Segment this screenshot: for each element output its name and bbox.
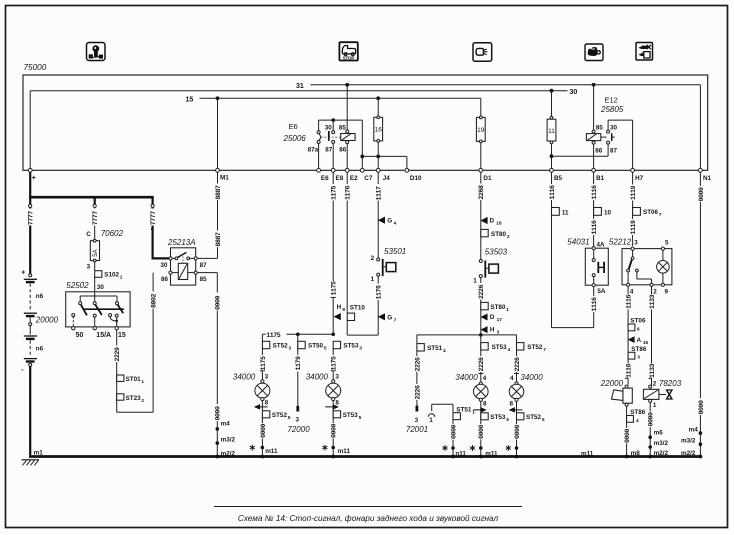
svg-text:8802: 8802: [151, 293, 158, 308]
lamp 34000 (rear right reversing): [306, 371, 341, 456]
svg-text:0000: 0000: [624, 428, 631, 443]
wire 7777 (battery): [27, 209, 35, 226]
svg-text:8: 8: [342, 307, 345, 313]
arrow D18: [480, 217, 501, 227]
svg-text:6: 6: [637, 326, 640, 332]
connector ST01: [117, 375, 145, 385]
svg-text:7777: 7777: [92, 211, 99, 226]
arrow A16: [628, 336, 649, 346]
svg-text:11: 11: [562, 209, 569, 216]
connector ST23: [117, 394, 145, 404]
connector ST53_4: [478, 335, 511, 382]
svg-text:1: 1: [653, 402, 657, 409]
svg-text:m3/2: m3/2: [654, 440, 669, 447]
connector ST52_5 (brake right): [517, 413, 545, 423]
svg-text:7777: 7777: [28, 211, 35, 226]
svg-text:ST86: ST86: [630, 409, 646, 416]
svg-text:0000: 0000: [260, 423, 267, 438]
arrow H8: [334, 304, 346, 320]
svg-text:0000: 0000: [648, 412, 655, 427]
connector ST53_3: [330, 341, 362, 380]
svg-text:25213A: 25213A: [167, 238, 196, 247]
wire 0000 (N1 to ground): [681, 172, 705, 457]
svg-text:ST80: ST80: [491, 231, 507, 238]
svg-text:1119: 1119: [630, 220, 637, 235]
svg-text:B5: B5: [554, 175, 563, 182]
svg-text:ST52: ST52: [273, 343, 289, 350]
svg-text:5: 5: [542, 417, 545, 423]
svg-text:4: 4: [630, 288, 634, 295]
connector ST52_5: [262, 411, 290, 421]
svg-text:2229: 2229: [114, 347, 121, 362]
svg-text:ST53: ST53: [490, 414, 506, 421]
svg-text:5A: 5A: [597, 288, 606, 295]
svg-text:2268: 2268: [478, 185, 485, 200]
svg-text:19: 19: [477, 127, 485, 134]
svg-text:5: 5: [665, 240, 669, 247]
svg-text:n6: n6: [36, 293, 44, 300]
svg-text:ST10: ST10: [350, 304, 366, 311]
svg-text:3: 3: [634, 240, 638, 247]
svg-text:8: 8: [483, 400, 487, 407]
terminal B1: [592, 168, 605, 182]
svg-text:+: +: [32, 175, 36, 182]
wire 8802 (coil return): [117, 273, 158, 413]
svg-text:2226: 2226: [478, 284, 485, 299]
lamp 34000 (brake left): [455, 373, 488, 456]
svg-text:34000: 34000: [233, 373, 256, 382]
svg-text:15/A: 15/A: [96, 332, 111, 339]
bus 31: [296, 83, 700, 171]
svg-text:7: 7: [543, 347, 546, 353]
wire 7777 (fuse C): [91, 209, 99, 226]
svg-text:0000: 0000: [450, 424, 457, 439]
svg-text:5: 5: [324, 346, 327, 352]
wire 1119 (H7 to horn button): [629, 172, 637, 246]
svg-text:C: C: [86, 231, 91, 238]
terminal D1: [479, 168, 492, 182]
wire 0000 (brake right ground): [513, 424, 521, 450]
svg-text:C7: C7: [364, 175, 373, 182]
svg-text:2226: 2226: [414, 357, 421, 372]
svg-text:ST52: ST52: [526, 414, 542, 421]
svg-text:4: 4: [483, 375, 487, 382]
wire 1175 horizontal: [262, 331, 335, 339]
battery 20000: [21, 208, 58, 456]
svg-text:1: 1: [506, 307, 509, 313]
wire 0000 (relay 85 to ground): [197, 273, 235, 458]
svg-text:85: 85: [596, 124, 604, 131]
svg-text:5: 5: [359, 415, 362, 421]
svg-text:2226: 2226: [414, 385, 421, 400]
svg-text:2: 2: [653, 288, 657, 295]
svg-text:86: 86: [161, 276, 169, 283]
svg-text:30: 30: [325, 124, 333, 131]
connector ST10: [347, 304, 378, 335]
svg-text:86: 86: [339, 147, 347, 154]
reverse switch 53501: [371, 247, 407, 335]
svg-text:31: 31: [296, 83, 304, 90]
connector ST50_5: [295, 334, 327, 406]
svg-text:7: 7: [394, 317, 397, 323]
horn 54031: [567, 238, 608, 312]
svg-text:ST53: ST53: [492, 344, 508, 351]
svg-text:0000: 0000: [698, 400, 705, 415]
svg-text:m4: m4: [689, 426, 699, 433]
terminal E6: [317, 168, 329, 182]
svg-text:30: 30: [570, 89, 578, 96]
terminal +: [28, 168, 36, 182]
svg-text:1: 1: [371, 276, 375, 283]
svg-text:ST23: ST23: [126, 395, 142, 402]
svg-text:87: 87: [200, 262, 208, 269]
terminal D10: [405, 168, 422, 182]
bus 15: [186, 96, 481, 103]
svg-text:5: 5: [506, 417, 509, 423]
svg-text:52502: 52502: [66, 281, 89, 290]
svg-text:m1: m1: [34, 450, 44, 457]
socket pin 1 (72001 mate): [428, 404, 453, 424]
brake switch 53503: [473, 248, 507, 335]
svg-text:4: 4: [394, 220, 397, 226]
svg-text:34000: 34000: [306, 373, 329, 382]
svg-text:a: a: [151, 227, 154, 232]
svg-text:M1: M1: [220, 175, 229, 182]
wire 0000 (horn ground): [623, 428, 640, 458]
icon stop-lamp: [339, 42, 357, 60]
svg-text:70602: 70602: [101, 229, 124, 238]
svg-text:H7: H7: [635, 175, 644, 182]
svg-text:9: 9: [665, 288, 669, 295]
svg-text:0000: 0000: [215, 295, 222, 310]
terminal N1: [699, 168, 712, 182]
svg-text:85: 85: [200, 276, 208, 283]
lamp 34000 (brake right): [509, 373, 543, 456]
wire 1116 (B1 to horn relay): [590, 172, 598, 248]
svg-text:85: 85: [339, 124, 347, 131]
svg-text:2: 2: [371, 255, 375, 262]
junction box outer frame: [23, 75, 708, 170]
relay E6 25006: [283, 85, 363, 171]
fuse C 70602 (5A): [86, 208, 123, 271]
fuse 11: [547, 116, 556, 144]
svg-text:30: 30: [610, 124, 618, 131]
svg-text:50: 50: [76, 332, 84, 339]
svg-text:10: 10: [604, 209, 612, 216]
icon fanfare-horns: [636, 43, 653, 61]
wire 7777a (relay feed): [149, 209, 157, 233]
svg-text:34000: 34000: [520, 373, 543, 382]
svg-text:m6: m6: [654, 429, 664, 436]
svg-text:4A: 4A: [597, 241, 606, 248]
svg-text:G: G: [387, 217, 392, 224]
svg-text:1116: 1116: [591, 185, 598, 200]
svg-text:72001: 72001: [406, 425, 428, 434]
svg-text:16: 16: [375, 127, 383, 134]
svg-text:75000: 75000: [24, 63, 47, 72]
connector ST53_5 (brake left): [481, 413, 509, 423]
svg-text:E8: E8: [336, 175, 344, 182]
bus 30: [30, 89, 577, 171]
wire 0000 (ST51_1 ground): [450, 424, 467, 457]
svg-text:ST50: ST50: [308, 343, 324, 350]
svg-text:D: D: [490, 218, 495, 225]
svg-text:1116: 1116: [626, 294, 633, 309]
wire 2268 (D1 down): [478, 172, 486, 259]
svg-text:Схема № 14: Стоп-сигнал, фонар: Схема № 14: Стоп-сигнал, фонари заднего …: [238, 514, 499, 523]
connector ST80_1: [481, 302, 510, 313]
relay 25213A feed (thick): [152, 208, 171, 260]
connector ST52_7: [513, 343, 546, 382]
connector 11: [552, 208, 570, 217]
svg-text:7777: 7777: [150, 211, 157, 226]
svg-text:1117: 1117: [376, 186, 383, 201]
svg-text:0000: 0000: [215, 406, 222, 421]
svg-text:ST53: ST53: [343, 412, 359, 419]
svg-text:2: 2: [141, 398, 144, 404]
svg-text:H: H: [490, 327, 495, 334]
horn 22000: [600, 378, 633, 455]
clutch/brake device 78203: [643, 378, 681, 455]
svg-text:1119: 1119: [630, 185, 637, 200]
svg-text:11: 11: [548, 128, 555, 135]
svg-text:53503: 53503: [485, 248, 508, 257]
connector ST80_2: [481, 229, 510, 239]
svg-text:1133: 1133: [649, 363, 656, 378]
svg-text:+: +: [21, 270, 25, 277]
battery feed bus (thick): [29, 172, 155, 207]
svg-text:7: 7: [659, 212, 662, 218]
svg-text:A: A: [637, 337, 642, 344]
svg-text:3: 3: [637, 355, 640, 361]
wire 8887 (M1 to relay 87): [197, 172, 222, 258]
connector ST86_4: [627, 409, 646, 424]
svg-text:20000: 20000: [35, 315, 59, 324]
node C7/J4/D10 link: [360, 155, 407, 171]
svg-text:25805: 25805: [600, 105, 624, 114]
svg-text:1175: 1175: [331, 185, 338, 200]
svg-text:1176: 1176: [345, 185, 352, 200]
svg-text:8887: 8887: [215, 185, 222, 200]
brake lamp feed rail: [417, 333, 517, 344]
svg-text:1175: 1175: [331, 281, 338, 296]
svg-text:ST01: ST01: [126, 376, 142, 383]
svg-text:m11: m11: [581, 450, 594, 457]
svg-text:ST51: ST51: [427, 345, 443, 352]
svg-text:5A: 5A: [93, 249, 99, 256]
terminal E2: [345, 168, 358, 182]
svg-text:8: 8: [265, 400, 269, 407]
terminal M1: [216, 168, 230, 181]
icon ignition-key: [87, 43, 106, 61]
horn button 52212: [609, 238, 672, 296]
svg-text:ST52: ST52: [272, 412, 288, 419]
connector ST51_1: [453, 407, 475, 456]
svg-text:3: 3: [265, 373, 269, 380]
fuse 19: [476, 98, 485, 170]
terminal C7: [360, 168, 372, 182]
relay 25213A: [160, 238, 207, 285]
wire 0000 (lamp right ground): [330, 423, 351, 455]
svg-text:87: 87: [325, 147, 333, 154]
wire 1117 (J4 down): [375, 172, 383, 258]
chassis ground symbol: [22, 460, 40, 466]
svg-text:34000: 34000: [455, 373, 478, 382]
svg-text:3: 3: [289, 346, 292, 352]
svg-text:1116: 1116: [591, 297, 598, 312]
svg-text:15: 15: [118, 332, 126, 339]
stub to 72001 pin 3: [406, 406, 428, 434]
svg-text:1179: 1179: [295, 356, 302, 371]
svg-text:0000: 0000: [478, 424, 485, 439]
svg-text:18: 18: [496, 221, 502, 227]
wire 0000 (78203 ground): [647, 412, 669, 458]
arrow D17: [481, 314, 503, 324]
svg-text:1: 1: [141, 379, 144, 385]
svg-text:m11: m11: [265, 448, 278, 455]
svg-text:ST53: ST53: [343, 343, 359, 350]
svg-text:0000: 0000: [698, 187, 705, 202]
svg-text:1175: 1175: [260, 356, 267, 371]
svg-text:1176: 1176: [376, 285, 383, 300]
svg-text:0000: 0000: [331, 423, 338, 438]
svg-text:53501: 53501: [384, 247, 406, 256]
svg-text:J4: J4: [383, 175, 391, 182]
svg-text:D10: D10: [410, 175, 422, 182]
wire 1175 (E8 down): [330, 172, 338, 334]
svg-text:0000: 0000: [514, 424, 521, 439]
svg-text:1133: 1133: [649, 294, 656, 309]
svg-text:1: 1: [473, 278, 477, 285]
svg-text:1116: 1116: [591, 220, 598, 235]
svg-text:ST52: ST52: [527, 344, 543, 351]
svg-text:8: 8: [335, 400, 339, 407]
wire 1176 (E2 down): [344, 172, 352, 313]
svg-text:30: 30: [97, 284, 105, 291]
svg-text:30: 30: [160, 262, 168, 269]
svg-text:2: 2: [507, 234, 510, 240]
wire 2229 (switch 15 to relay coil): [113, 330, 121, 412]
wire 0000 (brake left ground): [478, 424, 499, 457]
svg-text:87: 87: [610, 147, 618, 154]
svg-text:m3/2: m3/2: [221, 436, 236, 443]
connector ST52_3: [259, 334, 291, 380]
svg-text:1175: 1175: [331, 356, 338, 371]
stub to 72000 pin 3: [287, 406, 310, 434]
connector ST06_6: [628, 318, 646, 333]
svg-text:3: 3: [335, 373, 339, 380]
wire M1 drop: [217, 98, 219, 170]
wire 1133 (52212 pin2 to 78203): [648, 286, 656, 386]
svg-text:2226: 2226: [514, 357, 521, 372]
ignition switch 52502: [66, 281, 130, 339]
svg-text:4: 4: [443, 348, 446, 354]
svg-text:E6: E6: [289, 122, 298, 131]
svg-text:1116: 1116: [626, 363, 633, 378]
connector 10: [594, 208, 612, 217]
svg-text:78203: 78203: [659, 379, 682, 388]
svg-text:n6: n6: [36, 346, 44, 353]
relay E12 25805: [552, 85, 633, 171]
svg-text:E12: E12: [605, 96, 618, 105]
arrow G7: [378, 313, 397, 323]
connector ST51_4: [414, 344, 446, 406]
svg-text:m4: m4: [221, 421, 231, 428]
svg-text:3: 3: [87, 264, 91, 271]
wire 1116 (52212 pin4 to horn): [625, 286, 633, 384]
svg-text:1: 1: [472, 410, 475, 416]
svg-text:N1: N1: [703, 175, 712, 182]
svg-text:2: 2: [653, 381, 657, 388]
svg-text:25006: 25006: [283, 134, 307, 143]
terminal E8: [331, 168, 343, 182]
svg-text:STOP: STOP: [343, 55, 355, 60]
fuse 16: [374, 98, 383, 170]
svg-text:54031: 54031: [567, 238, 589, 247]
ground bus m: [29, 450, 702, 459]
svg-text:ST06: ST06: [643, 209, 659, 216]
svg-text:ST80: ST80: [490, 304, 506, 311]
svg-text:8887: 8887: [215, 232, 222, 247]
connector ST06_7: [633, 208, 662, 219]
svg-text:72000: 72000: [287, 425, 310, 434]
svg-text:E2: E2: [350, 175, 358, 182]
svg-text:1116: 1116: [549, 185, 556, 200]
svg-text:22000: 22000: [600, 379, 624, 388]
svg-text:3: 3: [415, 417, 419, 424]
connector ST53_5: [333, 411, 361, 421]
svg-text:15: 15: [186, 96, 194, 103]
terminal H7: [631, 168, 644, 182]
wire B5 drop: [550, 91, 554, 171]
connector S102: [95, 271, 123, 292]
svg-text:m3/2: m3/2: [681, 438, 696, 445]
svg-text:4: 4: [508, 347, 511, 353]
arrow H3: [481, 326, 500, 336]
svg-text:3: 3: [359, 346, 362, 352]
wire 0000 (lamp left ground): [259, 423, 278, 455]
svg-text:D1: D1: [483, 175, 492, 182]
terminal J4: [376, 168, 390, 182]
svg-text:1175: 1175: [266, 332, 281, 339]
terminal B5: [550, 168, 563, 182]
svg-text:E6: E6: [321, 175, 329, 182]
svg-text:m11: m11: [338, 448, 351, 455]
svg-text:3: 3: [296, 416, 300, 423]
svg-text:G: G: [387, 314, 392, 321]
svg-text:86: 86: [595, 147, 603, 154]
svg-text:87a: 87a: [308, 147, 319, 154]
wire 1116 (B5 to horn): [548, 172, 594, 327]
svg-text:4: 4: [510, 375, 514, 382]
asterisk markers: [250, 445, 511, 451]
svg-text:D: D: [490, 314, 495, 321]
caption rule: [214, 506, 522, 508]
icon horn: [585, 44, 603, 61]
svg-text:1: 1: [429, 417, 433, 424]
svg-text:52212: 52212: [609, 238, 632, 247]
icon reversing-lamp: [473, 43, 492, 62]
svg-text:S102: S102: [104, 272, 119, 279]
lamp 34000 (rear left reversing): [233, 371, 270, 456]
svg-text:1: 1: [120, 275, 123, 281]
svg-text:4: 4: [636, 418, 639, 424]
svg-text:8: 8: [510, 400, 514, 407]
connector ST86_3: [628, 346, 647, 361]
svg-text:5: 5: [288, 415, 291, 421]
svg-text:B1: B1: [596, 175, 605, 182]
svg-text:17: 17: [497, 317, 503, 323]
